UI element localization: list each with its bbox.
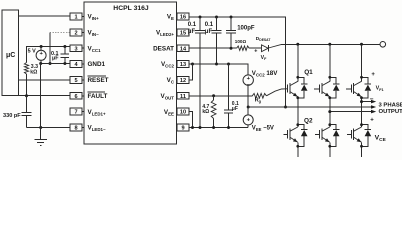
svg-text:+: + <box>370 117 374 123</box>
supply V2 VCC2 18V <box>243 70 278 88</box>
label 3 PHASE OUTPUT <box>379 102 402 115</box>
svg-text:DESAT: DESAT <box>153 45 174 52</box>
wire VEE rail <box>189 127 248 129</box>
svg-text:7: 7 <box>74 110 77 116</box>
svg-text:10: 10 <box>180 110 186 116</box>
svg-text:14: 14 <box>180 46 187 52</box>
pin 6 FAULT <box>70 92 107 100</box>
freewheel diode of Q2 <box>296 123 307 147</box>
freewheel diode of Q1 <box>296 76 307 99</box>
pin 12 VC <box>167 77 189 85</box>
svg-text:VIN−: VIN− <box>88 30 100 38</box>
svg-text:1: 1 <box>74 15 77 21</box>
wire VC tied to VCC2 <box>189 64 193 80</box>
svg-text:0.1: 0.1 <box>205 22 214 28</box>
capacitor C2 330pF <box>3 96 32 128</box>
wire V2 to VE node <box>247 85 249 107</box>
junction VCC2 at VC tie <box>191 63 194 66</box>
junction VIN- at GND1 <box>49 62 52 65</box>
resistor R3 Rg <box>252 93 266 103</box>
svg-text:VLED1+: VLED1+ <box>88 109 106 117</box>
svg-text:11: 11 <box>180 94 186 100</box>
svg-text:2: 2 <box>74 31 77 37</box>
wire VIN- to GND1 <box>50 32 70 63</box>
pin 7 VLED1+ <box>70 108 106 116</box>
microcontroller uC <box>2 10 19 96</box>
pin 9 VEE2 <box>177 124 189 132</box>
svg-text:+: + <box>371 72 375 78</box>
wire VLED1- return <box>27 127 71 129</box>
svg-text:13: 13 <box>180 62 186 68</box>
wire D1 to DC+ rail <box>268 45 281 48</box>
terminal DC+ <box>380 42 386 48</box>
junction VE node <box>247 106 250 109</box>
svg-text:−: − <box>370 96 374 103</box>
svg-text:FAULT: FAULT <box>88 93 108 100</box>
junctions on VE wire <box>199 16 233 19</box>
transistor Q2 <box>284 107 313 157</box>
resistor R1 3.3k <box>24 63 38 76</box>
junction FAULT node <box>25 94 28 97</box>
pin 5 RESET <box>70 76 109 84</box>
svg-text:μF: μF <box>188 29 196 35</box>
label VCE across leg3 bottom diode <box>370 117 386 143</box>
junction VLED1- at ground <box>39 126 42 129</box>
svg-text:HCPL 316J: HCPL 316J <box>113 5 149 12</box>
ground <box>35 140 47 146</box>
svg-text:VEE −5V: VEE −5V <box>252 125 274 131</box>
wire uC to FAULT <box>19 95 71 97</box>
wire VOUT from pin 11 <box>189 95 252 97</box>
pin 3 VCC1 <box>70 45 101 53</box>
freewheel diode of leg2 bottom <box>328 123 339 147</box>
pin 8 VLED1- <box>70 124 106 132</box>
pin 14 DESAT <box>153 45 189 53</box>
svg-text:μF: μF <box>232 106 238 112</box>
supply V1 5V <box>28 47 46 64</box>
junctions on VEE rail <box>191 126 230 129</box>
svg-text:0.1: 0.1 <box>188 22 197 28</box>
pin 4 GND1 <box>70 61 105 69</box>
svg-text:μF: μF <box>52 56 59 62</box>
resistor R4 4.7k <box>202 96 216 128</box>
wire DC+ rail <box>281 43 380 45</box>
freewheel diode of leg2 top <box>328 76 339 99</box>
label VF1 across leg3 top diode <box>370 72 384 103</box>
svg-text:VF1: VF1 <box>376 86 384 92</box>
pin 11 VOUT <box>160 92 189 100</box>
svg-text:VCC1: VCC1 <box>88 45 102 53</box>
junction VCC2 at C4 <box>215 63 218 66</box>
wire uC to RESET <box>19 79 71 81</box>
wire 5V minus to ground <box>40 64 42 140</box>
svg-text:kΩ: kΩ <box>30 69 37 75</box>
wire VCC1 rail <box>27 47 71 63</box>
junction GND1 at C1 <box>63 62 66 65</box>
transistor leg3 bottom <box>347 107 362 157</box>
svg-text:μF: μF <box>205 29 213 35</box>
svg-text:VCC2: VCC2 <box>161 61 175 69</box>
svg-text:100pF: 100pF <box>237 26 255 32</box>
pin 15 VLED2+ <box>156 29 189 37</box>
wire R2 to D1 <box>249 47 261 49</box>
svg-text:Q1: Q1 <box>304 69 313 76</box>
svg-text:5: 5 <box>74 78 77 84</box>
svg-text:VF: VF <box>261 55 267 61</box>
svg-text:VLED2+: VLED2+ <box>156 30 174 38</box>
wire VCC2 from pin 13 <box>189 64 248 75</box>
svg-text:+: + <box>247 118 251 124</box>
svg-text:8: 8 <box>74 126 77 132</box>
junctions on DC+ rail <box>296 43 363 46</box>
svg-text:15: 15 <box>180 31 186 37</box>
wire DESAT from pin 14 <box>189 47 237 49</box>
wire VEE pin 10 to pin 9 <box>189 112 193 128</box>
svg-text:VLED1−: VLED1− <box>88 125 106 133</box>
svg-text:5 V: 5 V <box>28 49 36 55</box>
transistor leg2 bottom <box>315 107 330 157</box>
svg-text:VOUT: VOUT <box>160 93 174 101</box>
pin 16 VE <box>167 13 189 21</box>
wire Rg to Q1 gate <box>266 89 287 96</box>
junction VOUT at R4 <box>212 94 215 97</box>
junction VCC2 at C6 <box>227 63 230 66</box>
resistor R2 100ohm <box>235 39 249 50</box>
svg-text:+: + <box>247 76 251 82</box>
svg-text:+: + <box>254 49 257 55</box>
wire VE from pin 16 <box>189 17 286 107</box>
junction VE wire at phase A <box>284 106 287 109</box>
wire R1 to FAULT <box>26 74 28 96</box>
3-phase output arrows <box>371 100 376 114</box>
svg-text:100Ω: 100Ω <box>235 39 247 44</box>
svg-text:kΩ: kΩ <box>202 109 209 115</box>
op-amp U1 HCPL-316J body <box>84 2 177 144</box>
pin 1 VIN+ <box>70 13 99 21</box>
wire phase C output <box>360 100 372 103</box>
svg-text:3 PHASE: 3 PHASE <box>379 102 402 108</box>
capacitor C6 0.1uF VCC2-VEE <box>224 64 239 128</box>
wire phase B output <box>328 110 372 113</box>
svg-text:+: + <box>40 51 44 57</box>
svg-text:16: 16 <box>180 15 186 21</box>
svg-text:VCC2 18V: VCC2 18V <box>252 70 278 77</box>
junction GND1 at 5V supply <box>39 62 42 65</box>
pin 10 VEE <box>164 108 189 116</box>
capacitor C3 0.1uF VE-VEE <box>188 17 205 128</box>
diode D1 DDESAT <box>254 36 271 61</box>
junction VCC1 at 5V supply <box>40 45 43 48</box>
svg-text:μC: μC <box>6 52 15 59</box>
transistor leg3 top <box>346 44 362 107</box>
junction VCC1 at C1 <box>63 45 66 48</box>
capacitor C5 100pF blanking <box>226 17 255 48</box>
svg-text:RESET: RESET <box>88 77 109 84</box>
freewheel diode of leg3 top <box>360 76 371 99</box>
svg-text:Rg: Rg <box>255 97 262 103</box>
pin 2 VIN- <box>70 29 99 37</box>
wire GND1 rail <box>41 63 70 65</box>
svg-text:3: 3 <box>74 46 77 52</box>
transistor leg2 top <box>314 44 330 107</box>
capacitor C4 0.1uF VCC2-VE <box>205 17 222 64</box>
capacitor C1 0.1uF <box>51 47 69 64</box>
junction DESAT at C5 <box>230 47 233 50</box>
svg-text:OUTPUT: OUTPUT <box>379 109 402 115</box>
wire uC to VIN+ <box>19 15 71 17</box>
svg-text:12: 12 <box>180 78 186 84</box>
svg-text:6: 6 <box>74 94 77 100</box>
pin 13 VCC2 <box>161 61 189 69</box>
svg-text:VC: VC <box>167 77 175 85</box>
svg-text:9: 9 <box>181 126 184 132</box>
svg-text:DDESAT: DDESAT <box>256 36 272 42</box>
supply V3 VEE -5V <box>243 107 274 132</box>
svg-text:GND1: GND1 <box>88 61 106 68</box>
svg-text:VIN+: VIN+ <box>88 14 100 22</box>
wire phase A output <box>248 106 372 108</box>
svg-text:VE: VE <box>167 14 174 22</box>
freewheel diode of leg3 bottom <box>360 123 371 147</box>
transistor Q1 <box>288 44 314 107</box>
svg-text:Q2: Q2 <box>304 117 313 124</box>
svg-text:330 pF: 330 pF <box>3 113 21 119</box>
svg-text:VEE: VEE <box>164 109 174 117</box>
svg-text:VCE: VCE <box>375 135 386 144</box>
